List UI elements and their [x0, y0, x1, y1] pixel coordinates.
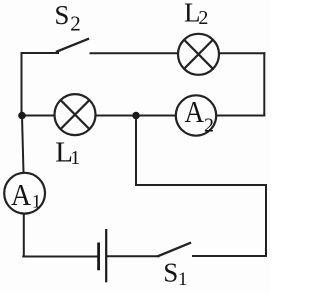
wire top left segment	[22, 52, 59, 54]
battery cell	[99, 229, 107, 282]
wire horizontal mid-right	[136, 184, 266, 186]
svg-text:A: A	[185, 94, 205, 129]
label L2	[184, 0, 208, 29]
svg-text:1: 1	[32, 192, 42, 213]
svg-text:2: 2	[70, 11, 81, 35]
wire bottom right segment	[193, 255, 266, 257]
svg-text:1: 1	[70, 147, 80, 169]
label L1	[55, 137, 80, 169]
wire battery to S1	[107, 255, 159, 257]
svg-text:S: S	[163, 257, 178, 287]
wire A2 right	[216, 115, 264, 117]
node A junction dot	[18, 112, 26, 120]
lamp L1	[55, 94, 96, 135]
node B junction dot	[132, 112, 140, 120]
wire L2 right	[219, 52, 265, 54]
wire L1 to node B	[95, 115, 136, 117]
switch S1 lever	[159, 243, 191, 256]
wire node B to A2	[136, 115, 176, 117]
wire right vertical lower	[265, 185, 267, 256]
wire node A to L1	[22, 115, 56, 117]
wire A1 to bottom wire	[23, 213, 25, 256]
svg-text:2: 2	[204, 115, 214, 137]
svg-text:S: S	[54, 0, 69, 30]
wire S2 to L2	[91, 52, 179, 54]
ammeter A1	[4, 173, 45, 214]
wire right vertical upper	[263, 53, 265, 115]
label S1	[163, 257, 187, 290]
wire bottom left segment	[23, 256, 97, 258]
label S2	[54, 0, 80, 35]
lamp L2	[178, 34, 219, 75]
svg-text:2: 2	[198, 7, 208, 29]
svg-text:1: 1	[178, 269, 188, 290]
switch S2 lever	[57, 39, 88, 52]
svg-text:A: A	[11, 177, 32, 212]
wire top-left vertical	[21, 53, 23, 116]
ammeter A2	[176, 94, 216, 137]
wire node B vertical down	[135, 116, 137, 186]
wire node A down to A1	[22, 116, 24, 174]
